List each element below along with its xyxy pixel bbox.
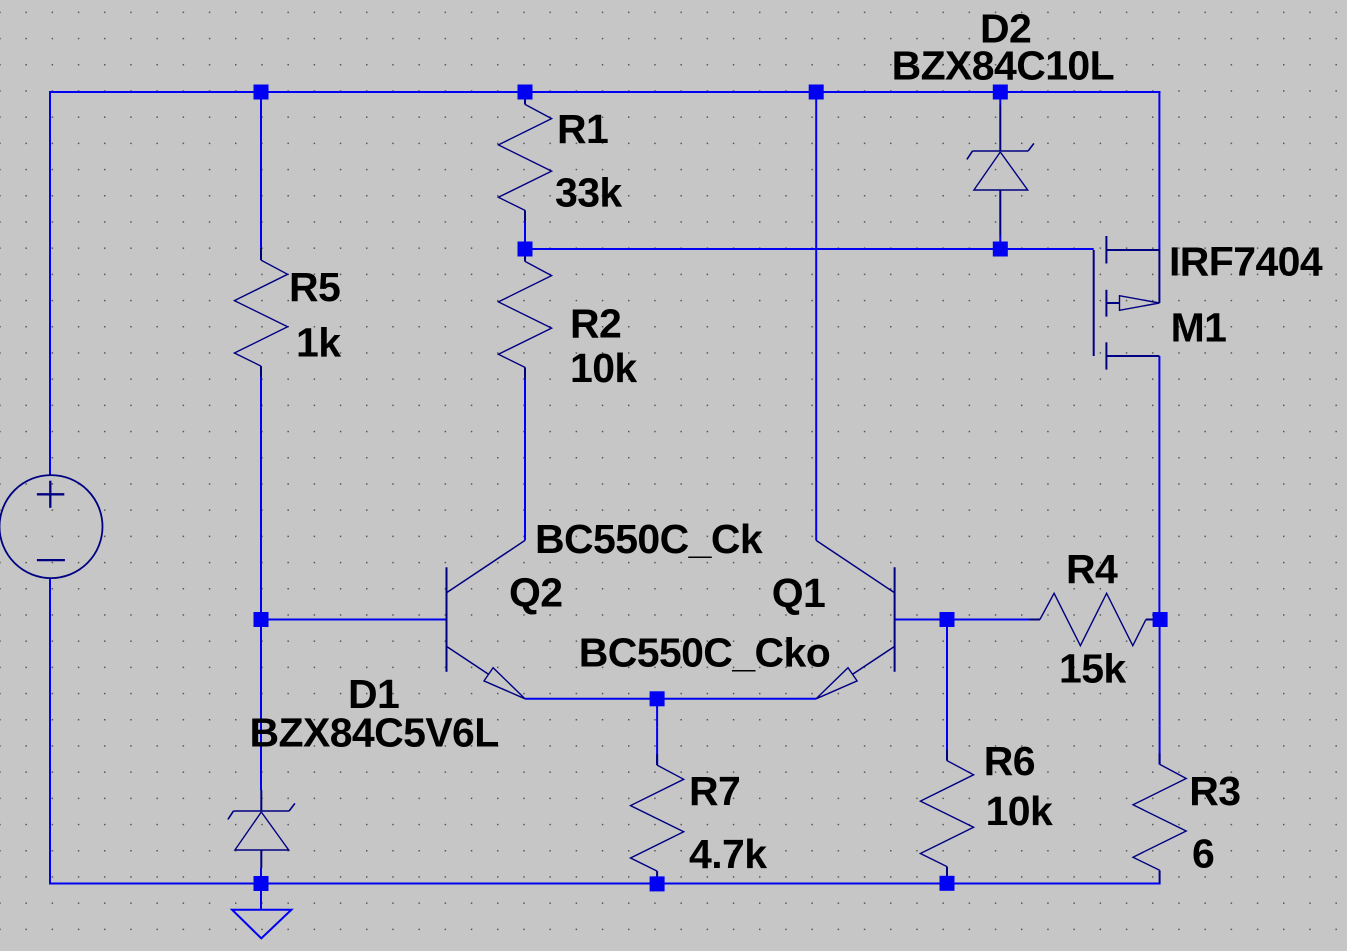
- zener diode D1: [228, 790, 295, 868]
- svg-text:M1: M1: [1171, 305, 1227, 351]
- node R4-right: [1153, 612, 1168, 627]
- zener diode D2: [967, 105, 1034, 235]
- svg-text:6: 6: [1192, 831, 1214, 877]
- node base-Q1: [940, 612, 955, 627]
- svg-text:IRF7404: IRF7404: [1169, 239, 1323, 285]
- svg-text:Q2: Q2: [509, 570, 563, 616]
- wire top rail: [49, 91, 1160, 93]
- wire R5 to base node: [260, 407, 262, 619]
- wire left rail lower: [49, 579, 51, 885]
- node mid-D2: [993, 242, 1008, 257]
- resistor R3: [1133, 726, 1186, 883]
- svg-text:Q1: Q1: [772, 570, 826, 616]
- transistor Q1: [816, 540, 895, 698]
- node bottom-D1: [254, 876, 269, 891]
- node emitter-R7: [650, 691, 665, 706]
- wire M1 source lead: [1158, 91, 1160, 250]
- node bottom-R7: [650, 876, 665, 891]
- node top-Q1c: [809, 85, 824, 100]
- ground: [232, 884, 291, 939]
- wire D2 top stub: [999, 92, 1001, 105]
- svg-text:10k: 10k: [986, 788, 1053, 834]
- wire mid rail y249: [525, 248, 1094, 250]
- node top-R5: [254, 85, 269, 100]
- wire R5 top lead: [260, 92, 262, 248]
- wire D1 bottom lead: [260, 868, 262, 884]
- wire emitter rail: [525, 698, 816, 700]
- wire left rail upper: [49, 91, 51, 475]
- node mid-R2: [518, 242, 533, 257]
- resistor R7: [631, 727, 684, 883]
- resistor R6: [920, 723, 973, 880]
- svg-text:R1: R1: [557, 106, 608, 152]
- svg-text:R7: R7: [689, 768, 740, 814]
- mosfet M1: [1094, 236, 1160, 370]
- svg-text:BC550C_Ck: BC550C_Ck: [535, 516, 763, 562]
- resistor R1: [498, 92, 551, 249]
- resistor R2: [498, 249, 551, 407]
- svg-text:1k: 1k: [296, 320, 341, 366]
- wire Q1 collector: [815, 92, 817, 540]
- transistor Q2: [447, 540, 526, 698]
- wire Q1 base: [895, 619, 947, 621]
- svg-text:4.7k: 4.7k: [689, 831, 767, 877]
- svg-text:R2: R2: [570, 301, 621, 347]
- wire R6 top lead: [946, 620, 948, 723]
- svg-text:BZX84C5V6L: BZX84C5V6L: [250, 710, 499, 756]
- voltage source V1: [0, 475, 103, 578]
- resistor R4: [947, 593, 1158, 645]
- wire bottom rail: [49, 883, 1161, 885]
- node top-D2: [993, 85, 1008, 100]
- svg-text:BZX84C10L: BZX84C10L: [892, 43, 1114, 89]
- wire Q2 base: [261, 619, 447, 621]
- wire R7 top lead: [656, 699, 658, 728]
- svg-text:10k: 10k: [570, 345, 637, 391]
- node bottom-R6: [940, 876, 955, 891]
- svg-text:33k: 33k: [555, 170, 622, 216]
- resistor R5: [234, 248, 287, 408]
- svg-text:R6: R6: [984, 738, 1035, 784]
- node base-Q2: [254, 612, 269, 627]
- svg-text:15k: 15k: [1059, 645, 1126, 691]
- wire M1 drain lead: [1158, 356, 1160, 620]
- wire R2 to Q2 collector: [524, 407, 526, 541]
- wire D1 top lead: [260, 620, 262, 791]
- node top-R1: [518, 85, 533, 100]
- svg-text:R5: R5: [289, 264, 340, 310]
- wire R3 top lead: [1159, 620, 1161, 726]
- svg-text:BC550C_Cko: BC550C_Cko: [579, 629, 831, 675]
- svg-text:R4: R4: [1066, 546, 1118, 592]
- svg-text:R3: R3: [1189, 768, 1240, 814]
- wire D2 bottom stub: [999, 235, 1001, 250]
